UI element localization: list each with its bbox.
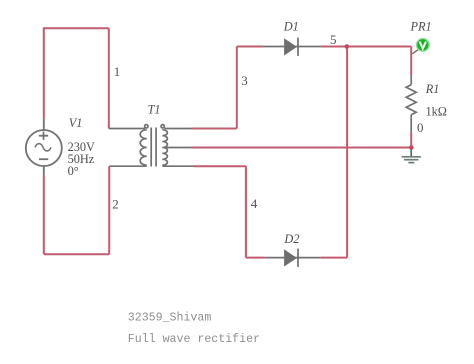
ground (402, 150, 421, 163)
junction node 0 (409, 145, 414, 150)
primary phase dot (145, 125, 148, 128)
svg-text:32359_Shivam: 32359_Shivam (128, 312, 212, 325)
junction node 5 (345, 44, 350, 49)
svg-text:Full wave rectifier: Full wave rectifier (128, 333, 260, 346)
secondary center tap pin (166, 147, 191, 149)
secondary top pin (164, 128, 191, 130)
wire node4 vertical (245, 166, 247, 257)
wire node1 vertical (108, 28, 110, 128)
svg-text:1: 1 (114, 64, 121, 79)
svg-text:T1: T1 (148, 102, 161, 116)
svg-text:PR1: PR1 (410, 20, 432, 34)
svg-text:5: 5 (330, 32, 337, 47)
secondary winding (162, 130, 167, 165)
wire node2 vertical (108, 166, 110, 254)
wire V1 bottom vertical (43, 175, 45, 254)
wire top-left horizontal (44, 27, 109, 29)
primary winding (140, 130, 146, 165)
svg-text:D1: D1 (283, 20, 299, 34)
svg-text:2: 2 (112, 197, 119, 212)
wire R1 bottom to node0 (410, 133, 412, 148)
diode D1 (263, 38, 322, 56)
svg-text:0: 0 (417, 120, 424, 135)
wire right riser to node5 (346, 47, 348, 258)
svg-text:0°: 0° (68, 164, 79, 178)
wire D2 to right riser (320, 257, 347, 259)
wire secondary-top to node3 (192, 128, 237, 130)
secondary bottom pin (162, 165, 193, 167)
primary bottom pin (109, 165, 147, 167)
svg-text:3: 3 (241, 73, 248, 88)
core (150, 128, 152, 167)
transformer T1 (109, 125, 194, 167)
primary top pin (109, 128, 145, 130)
wire into D2 (246, 257, 265, 259)
probe PR1 (412, 39, 429, 54)
wire into D1 (237, 46, 263, 48)
wire (44, 27, 411, 257)
wire center tap to node0 (192, 147, 412, 149)
diode D2 (265, 249, 320, 267)
wire D1 to node5 (322, 46, 412, 48)
voltage source V1 (26, 119, 62, 176)
wire secondary-bottom to node4 (194, 165, 246, 167)
wire V1 top vertical (43, 27, 45, 118)
wire bottom horizontal (44, 253, 109, 255)
svg-text:4: 4 (251, 196, 258, 211)
secondary phase dot (161, 125, 164, 128)
wire node5 down to R1 (410, 47, 412, 76)
svg-text:D2: D2 (283, 232, 299, 246)
svg-text:1kΩ: 1kΩ (426, 105, 447, 119)
resistor R1 (406, 75, 416, 133)
svg-text:V1: V1 (69, 116, 83, 130)
svg-text:R1: R1 (425, 82, 440, 96)
wire node3 vertical (236, 47, 238, 129)
